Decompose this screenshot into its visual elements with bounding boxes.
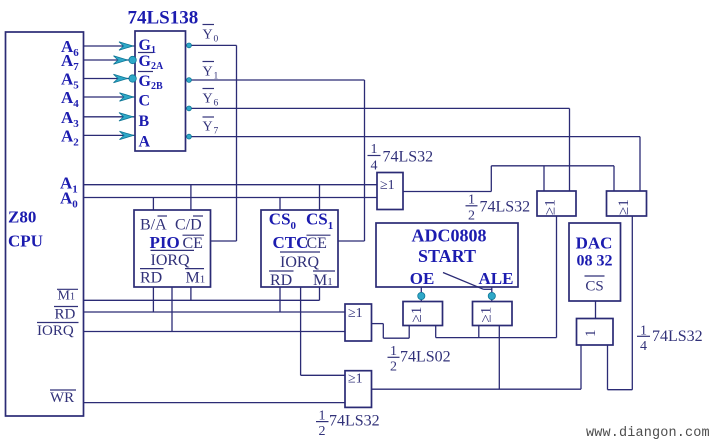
CPU address pin label A6 [61,37,79,59]
svg-text:4: 4 [640,339,647,354]
wire RD line from CPU to PIO, CTC and OR gate U8a [84,287,346,312]
wire Y7 output to OR gate U5b input [186,134,641,191]
ADC U6 ADC0808 box [376,223,518,287]
CPU address pin label A7 [61,51,79,73]
CPU address pin label A3 [61,108,79,130]
CTC pin CE (active low) [307,235,331,252]
decoder U2 pin G2B (active low) [138,72,163,93]
svg-text:Y: Y [203,65,213,80]
wire A6 to G1 with arrow [84,42,136,50]
wire WR line from CPU to OR gate U8b [84,402,346,404]
svg-text:7: 7 [214,127,219,137]
svg-text:≥1: ≥1 [543,199,559,215]
CPU pin label RD (active low) [54,307,78,323]
svg-text:74LS32: 74LS32 [652,328,703,345]
OR gate U8a (1/2 74LS32 RD+IORQ) box [345,304,372,341]
PIO pin IORQ (active low) [151,250,195,268]
wire Y1 output to CTC CE [186,78,365,241]
svg-text:0: 0 [214,35,219,45]
DAC pin CS (active low) [585,276,605,295]
ADC pin OE [410,269,435,288]
wire Y6 output to OR gate U5a input [186,106,570,191]
ADC U6 label ADC0808 [412,226,487,246]
svg-text:A: A [139,134,151,151]
node Y0 label (active low) [203,25,219,45]
svg-text:C/D: C/D [175,216,202,233]
NOR gate U9a (rotated, OE driver) box [403,302,443,326]
svg-text:Y: Y [203,120,213,135]
svg-text:≥1: ≥1 [380,178,395,193]
svg-text:RD: RD [55,307,76,323]
svg-text:74LS32: 74LS32 [383,149,434,166]
wire A2 to A with arrow [84,131,136,139]
svg-text:Z80: Z80 [8,208,36,227]
CTC pin M1 (active low) [313,271,335,289]
decoder U2 pin G1 [139,37,156,56]
CPU pin label IORQ (active low) [37,323,79,340]
svg-text:CS0: CS0 [269,210,297,233]
wire A5 to G2B with arrow and junction dot [84,74,137,82]
OR gate U5c (rotated, DAC CS driver) box [577,319,614,346]
svg-text:Y: Y [203,92,213,107]
svg-text:74LS32: 74LS32 [329,413,380,430]
svg-text:START: START [418,246,476,266]
svg-text:≥1: ≥1 [409,307,425,323]
svg-text:1: 1 [371,142,378,157]
svg-text:CS: CS [585,279,603,295]
svg-text:4: 4 [371,159,378,174]
wire OR U8a output to NOR U9a input [372,324,410,339]
svg-text:DAC: DAC [576,234,613,253]
wire Y0 output to PIO CE [186,43,237,241]
svg-text:ADC0808: ADC0808 [412,226,487,246]
svg-text:≥1: ≥1 [348,306,363,321]
decoder U2 pin B [139,113,150,130]
CPU address pin label A0 [60,189,78,211]
label 1/4 74LS32 (top) [368,142,434,174]
svg-text:08 32: 08 32 [577,253,613,270]
CPU pin label M1 (active low) [57,289,78,304]
wire OR U5d output to rotated OR gates U5a and U5b [403,166,614,192]
wire ADC OE pin to NOR U9a output with node dot [418,287,425,302]
svg-text:G2B: G2B [139,73,163,92]
svg-text:B/A: B/A [140,216,167,233]
wire OR U5a output to NOR U9a and U9b inputs [436,216,557,338]
svg-text:B: B [139,113,150,130]
OR gate U8b (1/2 74LS32 IORQ+WR) box [345,371,372,408]
PIO pin C/D (D inverted) [175,216,203,233]
PIO U3 box [134,210,211,287]
OR gate U5b (rotated, Y7 + A1A0) box [607,191,647,216]
wire A1 bus line to OR gate U3a and taps [84,185,378,210]
CPU address pin label A5 [61,70,79,92]
label 1/2 74LS32 (bottom) [316,408,380,439]
svg-text:Y: Y [203,28,213,43]
PIO pin B/A (A inverted) [140,216,167,233]
node Y6 label (active low) [203,89,219,109]
svg-text:≥1: ≥1 [348,372,363,387]
svg-text:74LS32: 74LS32 [480,199,531,216]
OR gate U5d (1/4 74LS32) A1+A0 box [377,173,403,210]
wire A3 to B with arrow [84,113,136,121]
svg-text:≥1: ≥1 [479,307,495,323]
svg-text:CE: CE [183,235,203,252]
wire START tied to ALE (diagonal) [443,273,492,290]
svg-text:2: 2 [468,209,475,224]
PIO pin CE (active low) [183,235,205,252]
CTC U4 label [273,233,309,252]
label 1/2 74LS02 [388,344,451,374]
PIO U3 label [150,233,180,252]
wire OR U5b output to OR U5c input [608,216,633,390]
ADC pin ALE [479,269,514,288]
CTC U4 box [261,210,338,287]
svg-text:M1: M1 [186,270,206,287]
wire ADC ALE pin to NOR U9b output with node dot [488,287,495,302]
CTC pin IORQ (active low) [280,252,320,271]
CTC pin CS0 [269,210,297,233]
svg-text:WR: WR [50,390,74,406]
svg-text:≥1: ≥1 [616,199,632,215]
label 1/2 74LS32 (middle) [466,193,531,224]
decoder U2 pin C [139,93,151,110]
svg-text:CTC: CTC [273,233,309,252]
svg-text:M1: M1 [313,272,333,289]
CPU address pin label A4 [61,88,79,110]
watermark www.diangon.com [586,426,710,441]
node Y1 label (active low) [203,62,219,82]
PIO pin M1 (active low) [185,269,205,287]
DAC U7 DAC0832 box [569,223,621,301]
wire OR U5c output to DAC CS pin [595,301,597,319]
CPU U1 Z80 box [6,32,84,416]
svg-text:PIO: PIO [150,233,180,252]
svg-text:IORQ: IORQ [280,254,320,271]
OR gate U5a (rotated, Y6 + A1A0) box [537,191,576,216]
decoder U2 pin G2A (active low) [138,53,164,73]
wire A7 to G2A with arrow and junction dot [84,56,137,64]
svg-text:CS1: CS1 [306,210,333,233]
decoder U2 74LS138 box [135,31,186,151]
ADC pin START [418,246,476,266]
svg-text:OE: OE [410,269,435,288]
decoder U2 label 74LS138 [128,8,199,29]
svg-text:M1: M1 [58,289,75,304]
CTC pin RD (active low) [269,271,294,289]
wire IORQ line from CPU to PIO, CTC, OR gates U8a and U8b [84,287,346,375]
svg-text:RD: RD [140,270,162,287]
svg-text:74LS138: 74LS138 [128,8,199,29]
svg-text:1: 1 [583,330,599,338]
wire OR U8b output to NOR U9b input and OR U5c input [372,326,582,390]
CTC pin CS1 [306,210,333,233]
wire A4 to C with arrow [84,93,136,101]
svg-text:RD: RD [270,272,292,289]
svg-text:IORQ: IORQ [37,323,74,339]
CPU pin label WR (active low) [50,390,76,406]
CPU U1 label Z80 CPU [8,208,43,251]
DAC U7 label DAC 08 32 [576,234,613,270]
PIO pin RD (active low) [140,269,164,287]
CPU address pin label A2 [61,126,79,148]
label 1/4 74LS32 (right) [637,324,703,355]
svg-text:CPU: CPU [8,232,43,251]
NOR gate U9b (rotated, ALE driver) box [473,302,513,326]
decoder U2 pin A [139,134,151,151]
wire A0 bus line to OR gate U3a and taps [84,198,378,211]
svg-text:www.diangon.com: www.diangon.com [586,426,710,441]
svg-text:6: 6 [214,99,219,109]
svg-text:IORQ: IORQ [151,252,191,269]
wire M1 line from CPU to PIO and CTC [84,287,320,300]
svg-text:C: C [139,93,151,110]
CPU address pin label A1 [60,174,78,196]
svg-text:ALE: ALE [479,269,514,288]
svg-text:2: 2 [390,359,397,374]
node Y7 label (active low) [203,117,219,137]
svg-text:2: 2 [319,424,326,439]
svg-text:CE: CE [307,235,327,252]
svg-text:74LS02: 74LS02 [400,349,451,366]
